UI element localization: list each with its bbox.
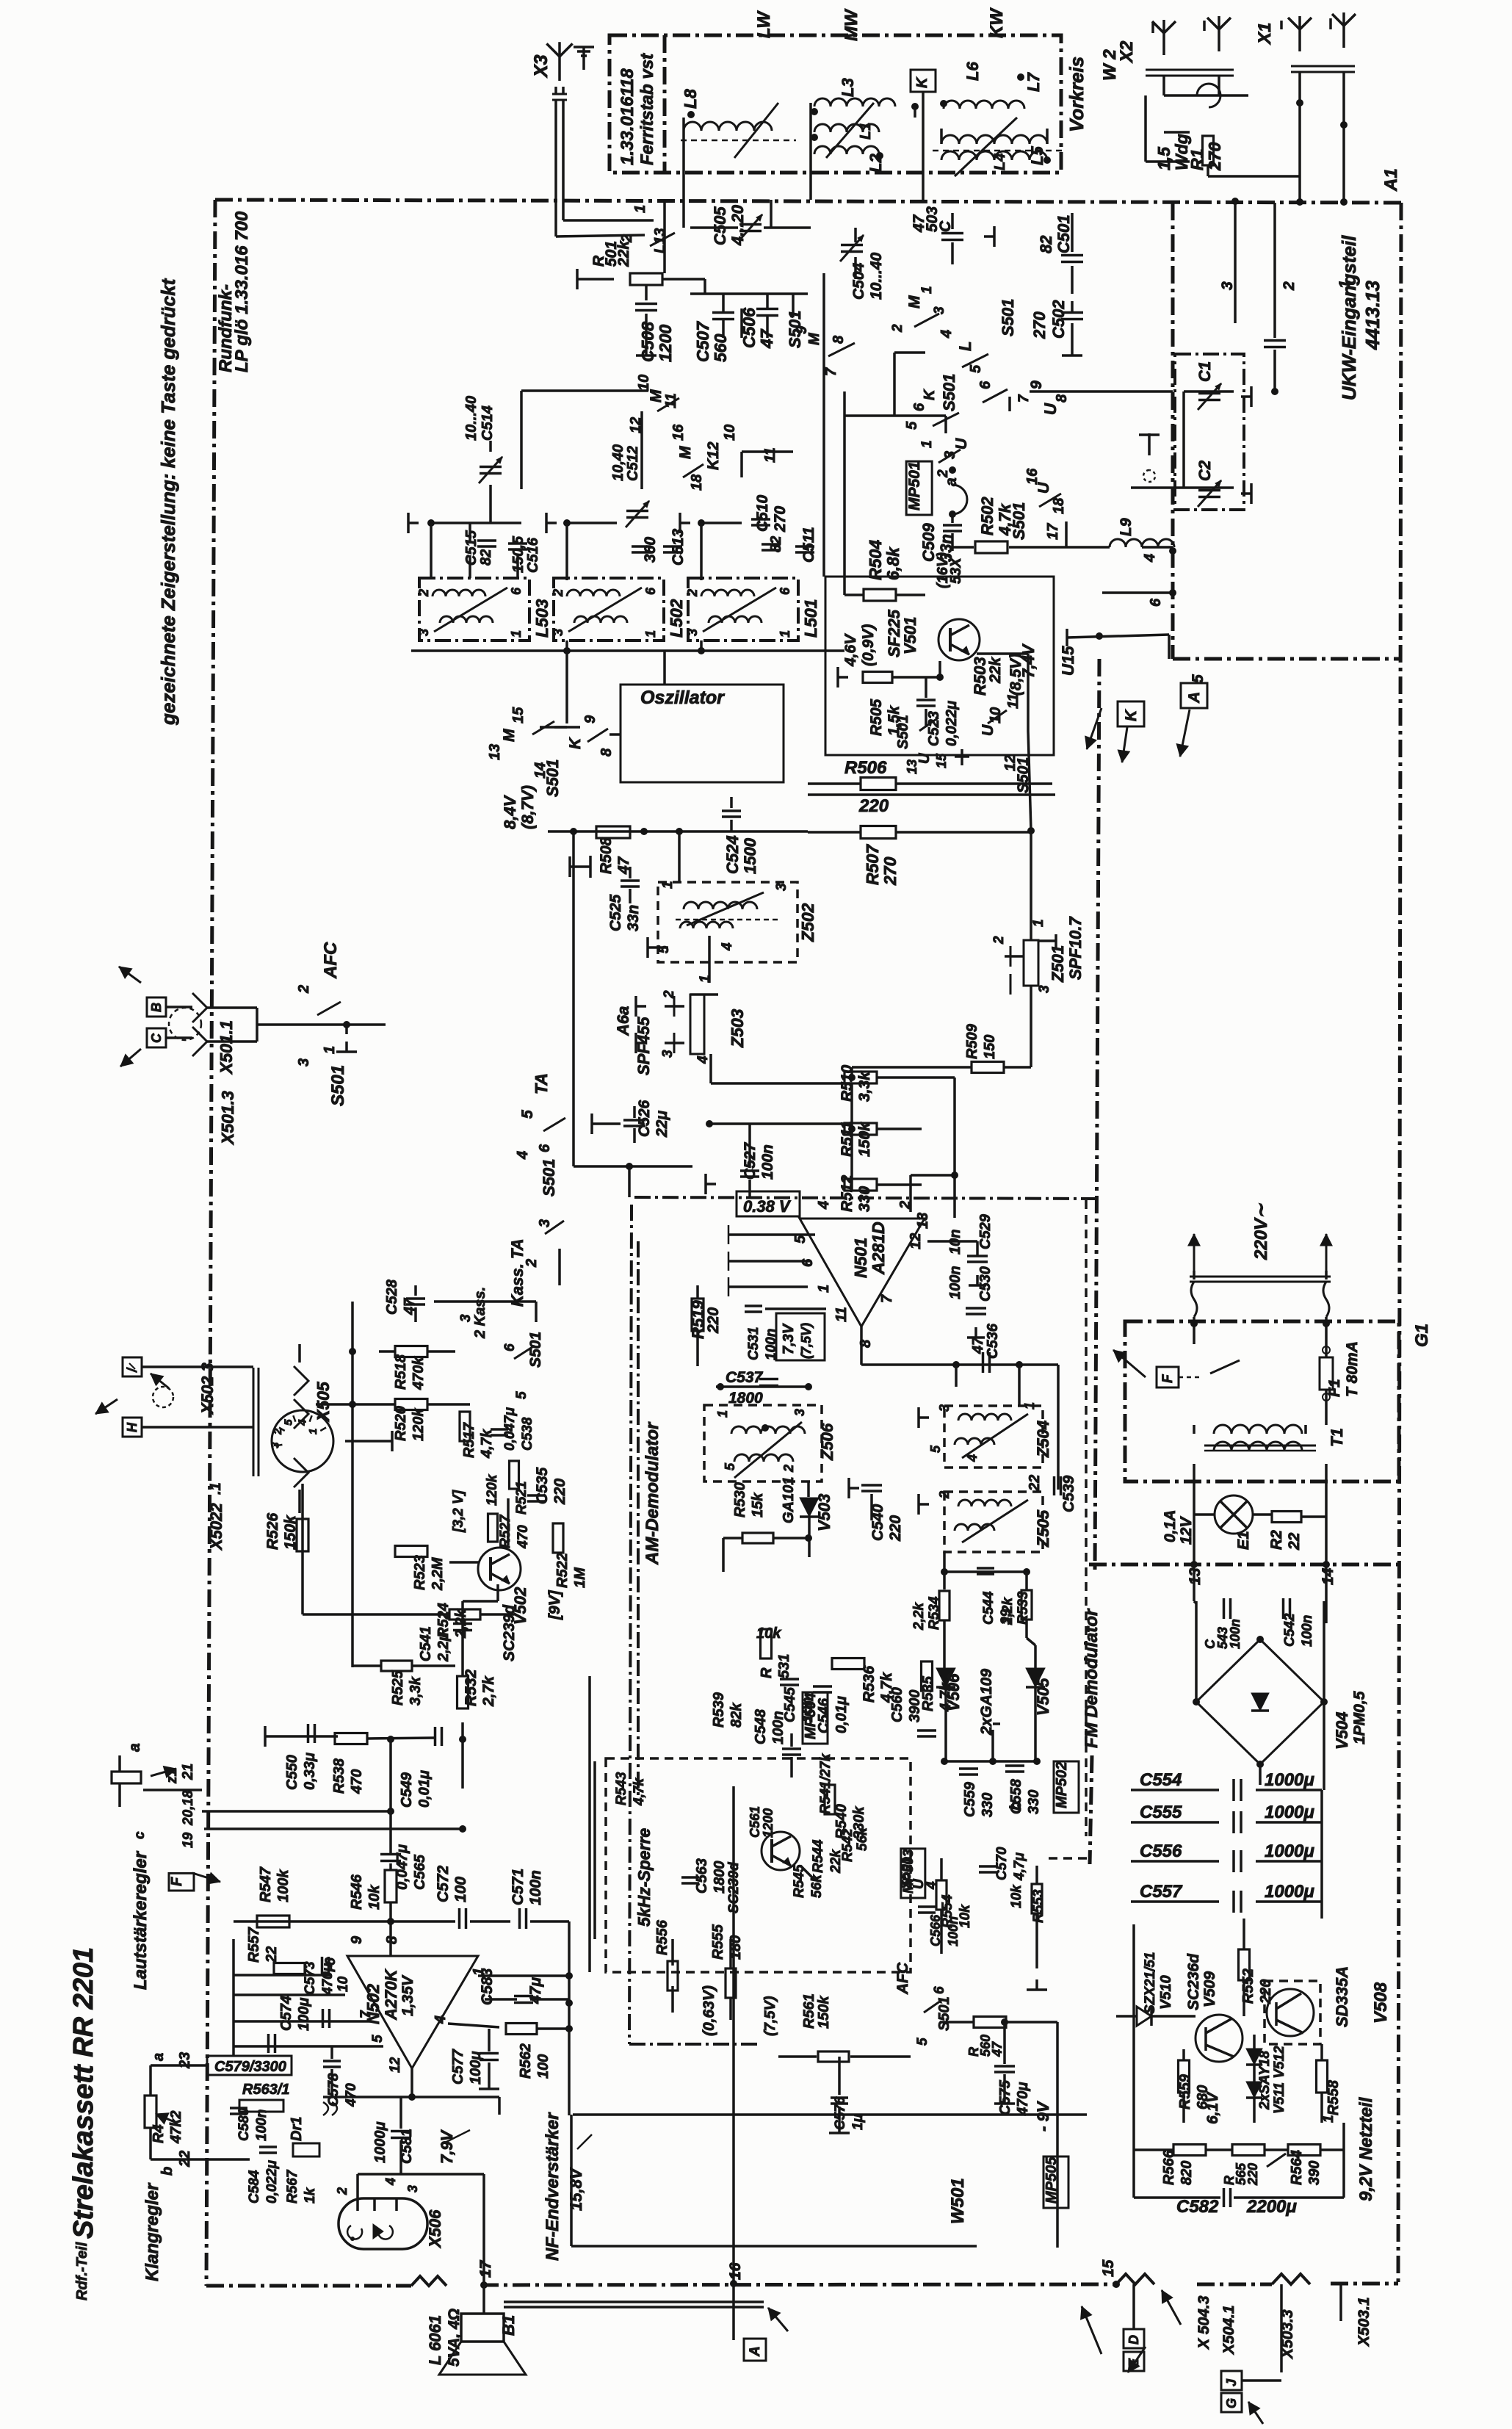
svg-text:8: 8: [1054, 394, 1070, 403]
svg-text:/: /: [125, 1367, 140, 1373]
svg-text:X 504.3: X 504.3: [1196, 2295, 1212, 2350]
svg-text:150k: 150k: [816, 1996, 832, 2029]
svg-text:C549: C549: [399, 1772, 415, 1808]
svg-text:2,2μ: 2,2μ: [435, 1632, 452, 1662]
svg-text:R533: R533: [1016, 1591, 1031, 1625]
svg-text:3: 3: [1219, 281, 1236, 290]
svg-text:C578: C578: [326, 2073, 341, 2107]
svg-text:100n: 100n: [1228, 1619, 1242, 1649]
svg-text:R4: R4: [151, 2124, 167, 2143]
svg-text:V503: V503: [815, 1494, 833, 1531]
svg-text:5: 5: [519, 1110, 536, 1119]
svg-text:100n: 100n: [764, 1329, 779, 1360]
svg-text:Vorkreis: Vorkreis: [1066, 57, 1088, 132]
svg-text:1: 1: [919, 286, 935, 294]
svg-text:b: b: [1008, 1801, 1024, 1811]
svg-text:R546: R546: [349, 1874, 365, 1910]
svg-text:9: 9: [794, 325, 810, 334]
svg-text:Lautstärkeregler: Lautstärkeregler: [131, 1850, 151, 1990]
svg-text:R553: R553: [1031, 1889, 1046, 1923]
svg-text:1: 1: [307, 1429, 319, 1434]
svg-text:270: 270: [880, 856, 900, 886]
svg-text:2: 2: [890, 324, 905, 333]
svg-text:8: 8: [384, 1935, 400, 1944]
svg-text:2: 2: [1281, 281, 1298, 291]
svg-text:1μ: 1μ: [850, 2113, 866, 2130]
svg-text:1: 1: [816, 1285, 832, 1293]
svg-text:J: J: [1224, 2378, 1239, 2386]
svg-text:22k: 22k: [615, 240, 632, 267]
svg-text:18: 18: [689, 474, 705, 491]
svg-text:Z505: Z505: [1034, 1509, 1052, 1548]
svg-text:13: 13: [487, 744, 503, 760]
svg-text:53X: 53X: [948, 557, 964, 584]
svg-text:C2: C2: [1196, 460, 1214, 481]
svg-text:W501: W501: [948, 2178, 968, 2224]
svg-text:820: 820: [1179, 2161, 1195, 2185]
svg-text:R555: R555: [710, 1924, 726, 1960]
svg-text:15: 15: [934, 753, 949, 768]
svg-text:4: 4: [1142, 554, 1158, 563]
svg-text:S501: S501: [543, 759, 562, 797]
svg-text:100: 100: [452, 1877, 469, 1902]
svg-text:9: 9: [1028, 380, 1045, 389]
svg-text:L6: L6: [963, 62, 982, 81]
svg-text:100n: 100n: [759, 1144, 776, 1180]
svg-text:L: L: [956, 342, 974, 351]
svg-text:3: 3: [537, 1219, 553, 1227]
svg-text:0,33μ: 0,33μ: [302, 1753, 318, 1790]
svg-text:2: 2: [296, 985, 312, 994]
svg-text:6: 6: [1148, 598, 1164, 607]
svg-text:12: 12: [388, 2057, 403, 2073]
svg-text:220: 220: [1245, 2163, 1260, 2186]
svg-text:15: 15: [1100, 2259, 1117, 2277]
svg-text:11: 11: [1005, 693, 1021, 709]
svg-text:3: 3: [269, 1442, 281, 1448]
svg-text:4: 4: [297, 1419, 309, 1426]
svg-text:16: 16: [1024, 468, 1041, 485]
svg-text:SPF10.7: SPF10.7: [1066, 916, 1085, 980]
svg-text:1: 1: [1321, 2115, 1336, 2123]
svg-text:10...40: 10...40: [463, 396, 480, 441]
svg-text:11: 11: [762, 447, 778, 463]
svg-text:R: R: [759, 1667, 775, 1678]
svg-text:A: A: [1186, 692, 1203, 704]
svg-text:L503: L503: [532, 599, 551, 638]
svg-text:D: D: [1126, 2335, 1141, 2345]
svg-text:17: 17: [1045, 523, 1061, 540]
svg-text:1500: 1500: [741, 837, 759, 874]
svg-text:R564: R564: [1289, 2150, 1305, 2185]
svg-text:470: 470: [349, 1769, 365, 1794]
svg-text:R506: R506: [844, 758, 887, 778]
svg-text:Kass. TA: Kass. TA: [508, 1238, 527, 1307]
svg-text:R522: R522: [554, 1553, 571, 1588]
svg-text:2: 2: [781, 1465, 796, 1473]
svg-text:LP glö 1.33.016 700: LP glö 1.33.016 700: [232, 211, 252, 372]
svg-text:1: 1: [698, 975, 713, 983]
svg-text:220: 220: [887, 1515, 904, 1542]
svg-text:0,022μ: 0,022μ: [264, 2159, 280, 2204]
svg-text:5: 5: [723, 1462, 737, 1470]
svg-text:1: 1: [778, 630, 792, 638]
svg-text:C563: C563: [694, 1858, 710, 1894]
svg-text:2: 2: [272, 1428, 284, 1435]
svg-text:C528: C528: [384, 1279, 400, 1315]
svg-text:C536: C536: [985, 1323, 1001, 1359]
svg-text:X502 3: X502 3: [198, 1363, 217, 1415]
svg-text:0,01μ: 0,01μ: [833, 1696, 850, 1733]
svg-text:0,01μ: 0,01μ: [416, 1770, 433, 1808]
svg-text:X505: X505: [314, 1381, 333, 1423]
svg-text:150k: 150k: [856, 1122, 873, 1157]
svg-text:1000μ: 1000μ: [372, 2121, 388, 2163]
svg-text:22: 22: [1286, 1532, 1303, 1551]
svg-text:C559: C559: [962, 1781, 978, 1817]
svg-text:150: 150: [982, 1035, 998, 1059]
svg-text:(0,9V): (0,9V): [860, 624, 877, 666]
svg-text:C1: C1: [1196, 361, 1214, 382]
svg-text:V510: V510: [1158, 1975, 1174, 2010]
svg-text:T1: T1: [1328, 1428, 1346, 1447]
svg-text:3: 3: [685, 629, 700, 636]
svg-text:6: 6: [509, 587, 524, 595]
svg-text:470: 470: [344, 2083, 359, 2107]
svg-text:9: 9: [349, 1935, 365, 1944]
svg-text:1,35V: 1,35V: [399, 1974, 416, 2016]
svg-text:R556: R556: [654, 1919, 670, 1955]
svg-text:100μ: 100μ: [296, 1998, 312, 2031]
svg-text:5: 5: [928, 1445, 943, 1453]
svg-text:C556: C556: [1140, 1841, 1182, 1861]
svg-text:C507: C507: [693, 321, 712, 362]
svg-text:10k: 10k: [756, 1625, 781, 1642]
svg-text:47: 47: [970, 1337, 986, 1354]
svg-text:10...40: 10...40: [868, 252, 885, 300]
svg-text:4,7k: 4,7k: [632, 1777, 647, 1806]
svg-text:C516: C516: [525, 537, 541, 573]
svg-text:K: K: [922, 389, 938, 400]
svg-text:K12: K12: [705, 441, 722, 470]
svg-text:C539: C539: [1060, 1475, 1077, 1512]
svg-text:56k: 56k: [809, 1874, 825, 1898]
svg-text:B1: B1: [499, 2315, 518, 2336]
svg-text:X506: X506: [426, 2209, 444, 2249]
svg-text:19: 19: [181, 1832, 196, 1848]
svg-text:Z506: Z506: [818, 1423, 836, 1461]
svg-text:C505: C505: [711, 206, 729, 245]
svg-text:R512: R512: [839, 1174, 856, 1212]
svg-text:R502: R502: [978, 497, 996, 535]
svg-text:10,40: 10,40: [610, 444, 626, 481]
svg-text:C511: C511: [800, 527, 817, 563]
svg-text:100k: 100k: [275, 1869, 292, 1902]
svg-text:0,047μ: 0,047μ: [502, 1407, 518, 1451]
svg-text:1: 1: [919, 440, 935, 448]
svg-text:6: 6: [932, 1986, 947, 1994]
svg-text:R532: R532: [463, 1669, 480, 1706]
svg-text:10: 10: [636, 375, 652, 391]
svg-text:6: 6: [778, 587, 792, 595]
svg-text:R508: R508: [598, 837, 615, 874]
svg-text:4413.13: 4413.13: [1361, 280, 1383, 350]
svg-text:7,9V: 7,9V: [438, 2129, 456, 2164]
svg-text:KW: KW: [987, 7, 1007, 38]
svg-text:U: U: [1035, 482, 1052, 494]
svg-text:82k: 82k: [728, 1703, 745, 1728]
svg-text:SF225: SF225: [885, 609, 903, 657]
svg-text:H: H: [125, 1422, 140, 1432]
svg-text:c: c: [132, 1831, 148, 1839]
svg-text:R557: R557: [246, 1927, 262, 1963]
svg-text:360: 360: [642, 537, 659, 563]
svg-text:R543: R543: [614, 1772, 629, 1805]
svg-text:R525: R525: [390, 1670, 406, 1706]
svg-text:6: 6: [537, 1144, 553, 1152]
svg-text:MW: MW: [842, 8, 861, 41]
svg-text:AM-Demodulator: AM-Demodulator: [643, 1421, 662, 1565]
svg-text:C526: C526: [636, 1100, 653, 1137]
svg-text:10: 10: [722, 425, 738, 441]
svg-text:2: 2: [936, 469, 951, 478]
svg-text:12V: 12V: [1178, 1516, 1195, 1545]
svg-text:R563/1: R563/1: [242, 2082, 290, 2098]
svg-text:S501: S501: [940, 374, 958, 411]
svg-text:SPF455: SPF455: [634, 1017, 653, 1075]
svg-text:1000μ: 1000μ: [1265, 1770, 1314, 1790]
svg-text:Z501: Z501: [1049, 945, 1067, 983]
svg-text:E1: E1: [1235, 1531, 1252, 1550]
svg-text:C535: C535: [534, 1467, 551, 1504]
svg-text:3: 3: [551, 629, 565, 636]
svg-text:3: 3: [942, 451, 958, 459]
svg-text:C510: C510: [754, 494, 771, 532]
svg-text:470μ: 470μ: [320, 1963, 336, 1996]
svg-text:L1: L1: [858, 123, 874, 140]
svg-text:10: 10: [336, 1976, 351, 1992]
svg-text:82: 82: [1037, 235, 1055, 253]
svg-text:470μ: 470μ: [1015, 2082, 1031, 2116]
svg-text:390: 390: [1306, 2161, 1323, 2185]
svg-text:X504.1: X504.1: [1220, 2305, 1237, 2355]
svg-text:C525: C525: [607, 894, 624, 931]
svg-text:C: C: [149, 1033, 164, 1043]
svg-text:7: 7: [879, 1294, 895, 1303]
svg-text:1: 1: [509, 630, 524, 638]
svg-text:2,7k: 2,7k: [480, 1675, 497, 1707]
svg-text:C515: C515: [463, 530, 480, 566]
svg-text:220V∼: 220V∼: [1251, 1203, 1271, 1260]
svg-text:9,2V Netzteil: 9,2V Netzteil: [1356, 2096, 1376, 2201]
svg-text:33n: 33n: [625, 905, 642, 931]
svg-text:C542: C542: [1282, 1613, 1298, 1647]
svg-text:560: 560: [711, 333, 730, 362]
svg-text:MP501: MP501: [906, 461, 923, 510]
svg-text:39: 39: [999, 1609, 1014, 1625]
svg-text:F: F: [169, 1877, 185, 1886]
svg-text:C548: C548: [753, 1708, 769, 1744]
svg-text:22k: 22k: [828, 1849, 844, 1874]
svg-text:4,6V: 4,6V: [842, 633, 859, 667]
svg-text:2,2k: 2,2k: [911, 1602, 927, 1631]
svg-text:1000μ: 1000μ: [1265, 1841, 1314, 1861]
svg-text:R538: R538: [331, 1758, 347, 1794]
svg-text:N501: N501: [851, 1238, 870, 1278]
svg-text:X2: X2: [1117, 40, 1137, 64]
svg-text:U: U: [953, 438, 970, 450]
svg-text:470: 470: [516, 1525, 531, 1549]
svg-text:47: 47: [990, 2041, 1005, 2057]
svg-text:V501: V501: [901, 617, 919, 654]
svg-text:Oszillator: Oszillator: [640, 687, 725, 708]
svg-text:6,1V: 6,1V: [1204, 2091, 1221, 2124]
svg-text:3: 3: [937, 1404, 952, 1412]
svg-text:C582: C582: [1176, 2197, 1219, 2217]
svg-text:R509: R509: [964, 1023, 980, 1059]
svg-text:L9: L9: [1118, 518, 1135, 536]
svg-text:R523: R523: [412, 1555, 428, 1590]
svg-text:X503.1: X503.1: [1356, 2297, 1372, 2347]
svg-text:47k2: 47k2: [168, 2111, 184, 2145]
svg-text:C538: C538: [520, 1417, 535, 1451]
svg-text:C570: C570: [994, 1847, 1010, 1880]
svg-text:0,022μ: 0,022μ: [944, 701, 960, 746]
svg-text:Z504: Z504: [1034, 1421, 1052, 1458]
svg-text:C512: C512: [625, 446, 641, 481]
svg-text:Ferritstab vst: Ferritstab vst: [637, 53, 657, 165]
svg-text:U: U: [1041, 403, 1060, 415]
svg-text:C573: C573: [303, 1961, 318, 1995]
svg-text:1k: 1k: [303, 2187, 318, 2204]
svg-text:2: 2: [685, 589, 700, 597]
svg-text:100n: 100n: [254, 2109, 270, 2141]
svg-text:V508: V508: [1371, 1982, 1391, 2024]
svg-text:T 80mA: T 80mA: [1344, 1341, 1361, 1397]
svg-text:3,3k: 3,3k: [408, 1676, 424, 1706]
svg-text:M: M: [648, 389, 665, 403]
svg-text:3: 3: [1037, 985, 1052, 993]
svg-text:4: 4: [383, 2178, 398, 2186]
svg-text:2: 2: [551, 589, 565, 597]
svg-text:1: 1: [1336, 280, 1353, 289]
svg-text:22: 22: [177, 2151, 193, 2168]
svg-text:C530: C530: [977, 1266, 994, 1302]
svg-text:15: 15: [510, 707, 527, 723]
svg-text:R547: R547: [258, 1866, 274, 1902]
svg-text:10k: 10k: [366, 1885, 383, 1910]
svg-text:1800: 1800: [712, 1861, 728, 1894]
svg-text:U: U: [980, 724, 996, 736]
svg-text:7: 7: [1016, 394, 1032, 403]
svg-text:2xGA109: 2xGA109: [978, 1669, 995, 1736]
svg-text:K: K: [1123, 709, 1140, 721]
svg-text:L3: L3: [839, 78, 857, 97]
svg-text:82: 82: [478, 549, 494, 566]
svg-text:R527: R527: [498, 1514, 513, 1548]
svg-text:UKW-Eingangsteil: UKW-Eingangsteil: [1338, 235, 1360, 400]
svg-text:L8: L8: [681, 89, 700, 109]
svg-text:5kHz-Sperre: 5kHz-Sperre: [634, 1828, 654, 1927]
svg-text:R541/27k: R541/27k: [818, 1753, 833, 1814]
svg-text:1PM0,5: 1PM0,5: [1351, 1691, 1368, 1744]
svg-text:C514: C514: [480, 405, 496, 441]
svg-text:(7,5V): (7,5V): [799, 1323, 814, 1359]
svg-text:2: 2: [524, 1259, 540, 1268]
svg-text:C555: C555: [1140, 1802, 1182, 1822]
svg-text:R534: R534: [927, 1596, 942, 1630]
svg-text:10k: 10k: [958, 1904, 973, 1928]
svg-text:C571: C571: [510, 1869, 527, 1905]
svg-text:4: 4: [938, 330, 955, 339]
svg-text:3900: 3900: [907, 1690, 923, 1723]
svg-text:C504: C504: [850, 262, 867, 300]
svg-text:17: 17: [477, 2259, 494, 2278]
svg-text:470k: 470k: [410, 1357, 427, 1390]
svg-text:b: b: [159, 2167, 176, 2176]
svg-text:X3: X3: [531, 54, 551, 79]
svg-text:[9V]: [9V]: [546, 1589, 563, 1620]
svg-text:2xSAY18: 2xSAY18: [1257, 2051, 1273, 2110]
svg-text:AFC: AFC: [321, 942, 341, 979]
svg-text:U15: U15: [1059, 646, 1077, 676]
svg-text:56k: 56k: [855, 1827, 870, 1851]
svg-text:B: B: [149, 1003, 164, 1012]
svg-text:100μ: 100μ: [468, 2051, 484, 2085]
svg-text:13: 13: [915, 1213, 931, 1229]
svg-text:11: 11: [833, 1307, 850, 1322]
svg-text:V509: V509: [1201, 1971, 1218, 2007]
svg-text:M: M: [806, 332, 822, 345]
svg-text:C529: C529: [977, 1213, 994, 1249]
svg-text:4,7μ: 4,7μ: [1012, 1852, 1027, 1881]
svg-text:L502: L502: [667, 599, 686, 638]
svg-text:L4: L4: [992, 154, 1008, 170]
svg-text:270: 270: [1030, 311, 1049, 339]
svg-text:(0,63V): (0,63V): [701, 1985, 717, 2036]
svg-text:3: 3: [416, 629, 431, 636]
svg-text:7: 7: [823, 367, 839, 376]
svg-text:3: 3: [405, 2185, 420, 2192]
svg-text:MP502: MP502: [1054, 1762, 1070, 1808]
svg-text:C557: C557: [1140, 1882, 1183, 1902]
svg-text:100n: 100n: [1300, 1615, 1315, 1647]
svg-text:9: 9: [582, 715, 598, 723]
svg-text:M: M: [906, 295, 923, 308]
svg-text:M: M: [501, 729, 518, 742]
svg-text:100n: 100n: [947, 1266, 963, 1299]
svg-text:a: a: [151, 2053, 167, 2061]
svg-text:L 6061: L 6061: [426, 2315, 444, 2365]
svg-text:R558: R558: [1325, 2079, 1342, 2115]
svg-text:SC239d: SC239d: [726, 1862, 742, 1913]
svg-text:4: 4: [433, 2015, 449, 2024]
svg-text:Rdf.-Teil: Rdf.-Teil: [74, 2242, 90, 2300]
svg-text:330: 330: [980, 1793, 996, 1817]
svg-text:15k: 15k: [750, 1493, 766, 1517]
svg-text:R521: R521: [514, 1481, 529, 1515]
svg-text:8: 8: [598, 748, 615, 757]
svg-text:Strelakassett RR 2201: Strelakassett RR 2201: [68, 1947, 99, 2239]
svg-text:100n: 100n: [770, 1711, 786, 1744]
svg-text:22μ: 22μ: [654, 1111, 670, 1138]
svg-text:5: 5: [968, 364, 984, 373]
svg-text:AFC: AFC: [894, 1962, 911, 1995]
svg-text:SC236d: SC236d: [1185, 1953, 1202, 2010]
svg-text:1: 1: [643, 630, 658, 638]
svg-text:7,3V: 7,3V: [781, 1323, 797, 1354]
svg-text:.1: .1: [208, 1482, 224, 1495]
